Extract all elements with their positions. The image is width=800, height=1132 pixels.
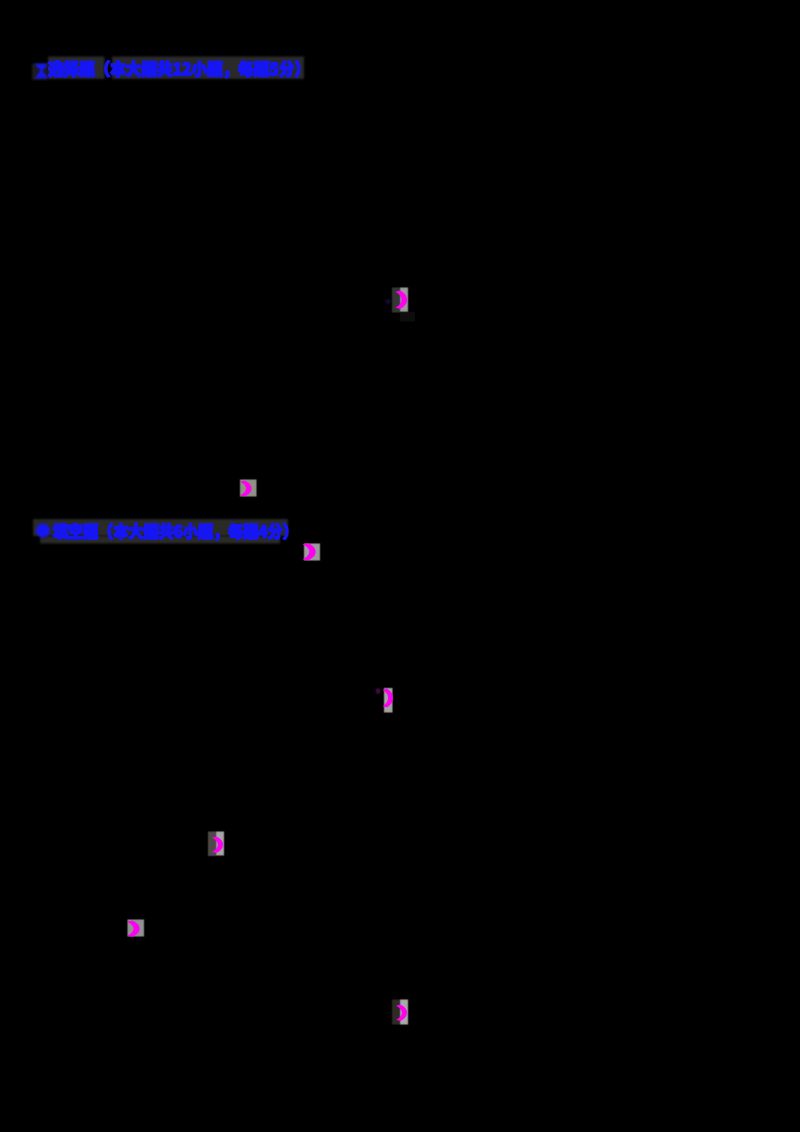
answer 6 magenta close-paren [128,921,139,937]
answer 2 magenta close-paren [241,481,251,496]
answer 4 magenta close-paren [384,689,393,707]
answer 1 magenta close-paren [397,291,407,309]
section 2 heading blue text [53,523,288,540]
answer 3 magenta close-paren [303,543,315,559]
section 1 heading highlight band (left segment) [48,57,105,80]
answer 7 magenta close-paren [397,1005,407,1021]
answer 1 highlight dark half [392,288,400,313]
section 2 heading highlight band (lower row) [40,536,280,544]
answer 7 highlight light half [400,1000,408,1025]
section 1 heading blue text [48,61,300,78]
answer 7 highlight dark half [392,1000,400,1025]
answer 3 highlight box [304,544,320,561]
section 1 heading lead numeral glyph [36,65,47,78]
answer 1 faint sub-box [400,312,415,322]
answer 5 highlight light half [216,832,224,856]
answer 6 highlight box [128,920,145,937]
answer 2 highlight box [240,480,257,497]
answer 4 highlight box [384,688,393,713]
answer 1 highlight light half [400,288,408,313]
section 1 heading lead-glyph faint band [32,64,48,81]
section 1 heading highlight band (right segment) [112,57,304,80]
answer 5 magenta close-paren [213,837,223,853]
answer 5 highlight dark half [208,832,216,857]
answer 4 faint magenta smudge [376,688,381,694]
section 2 heading lead bullet glyph [36,524,50,538]
section 2 heading highlight band (upper row) [33,519,288,536]
answer 1 faint navy blob [385,299,391,304]
